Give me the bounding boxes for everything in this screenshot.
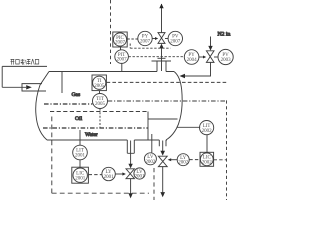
oil bucket level bbox=[148, 118, 178, 120]
transmitter PIT2007 bbox=[115, 50, 129, 64]
signal PIC2007 to PY2007 bbox=[127, 38, 138, 40]
bubble LV2002 bbox=[144, 153, 156, 165]
svg-text:Gas: Gas bbox=[72, 92, 81, 98]
wire LIT to LIC bbox=[79, 160, 81, 167]
svg-text:2002: 2002 bbox=[202, 160, 213, 165]
svg-text:2001: 2001 bbox=[135, 175, 146, 180]
signal PIT2007 to PY2004 bbox=[129, 56, 185, 58]
signal LIC2002 to edge bbox=[214, 159, 227, 161]
wire PIC to PIT bbox=[120, 47, 122, 50]
svg-text:2001: 2001 bbox=[104, 175, 115, 180]
signal TT2005 to right edge bbox=[108, 100, 227, 102]
water drain outlet wire bbox=[130, 179, 132, 194]
signal arrow PY2007 to valve bbox=[152, 38, 155, 40]
signal arrow PY2004 to valve bbox=[199, 56, 203, 58]
inlet leader wire bbox=[1, 66, 3, 87]
weir plate bbox=[147, 112, 149, 141]
svg-text:Oil: Oil bbox=[75, 116, 83, 122]
gas vent arrow up bbox=[159, 4, 163, 9]
water outlet nozzle bbox=[127, 140, 134, 153]
gas riser wire bbox=[161, 4, 163, 71]
wire valve to PV2007 bubble bbox=[165, 38, 168, 40]
signal drop right edge bbox=[226, 100, 228, 200]
positioner PY2004 bbox=[184, 50, 199, 65]
indicator TI2005 bbox=[92, 75, 106, 91]
wire valve to PV2003 bubble bbox=[214, 56, 218, 58]
bubble LV2001 bbox=[134, 168, 145, 179]
svg-text:Water: Water bbox=[85, 132, 98, 138]
inlet nozzle box bbox=[22, 84, 46, 91]
separator vessel shell top bbox=[49, 71, 174, 73]
valve LV2002 bbox=[158, 156, 167, 166]
panel boundary top bbox=[110, 0, 112, 64]
LIT2001 tap wire bbox=[79, 130, 81, 145]
gas outlet nozzle bbox=[152, 61, 172, 72]
bubble PV2007 bbox=[168, 31, 182, 45]
level line oil/water bbox=[43, 127, 148, 129]
level line gas/oil bbox=[44, 103, 92, 105]
transmitter TT2005 bbox=[93, 94, 108, 109]
inlet flow arrow bbox=[26, 85, 32, 89]
vessel right head bbox=[166, 72, 182, 141]
svg-text:2001: 2001 bbox=[75, 176, 86, 181]
arrow into vessel head bbox=[180, 74, 186, 78]
flow arrow down bbox=[128, 164, 132, 169]
transmitter LIT2002 bbox=[200, 121, 214, 135]
signal PIC to gas valve bbox=[130, 47, 170, 49]
label underline bbox=[2, 65, 47, 67]
flow arrow into PV2007 valve bbox=[159, 44, 163, 49]
svg-text:2005: 2005 bbox=[94, 84, 105, 89]
controller LIC2001 bbox=[72, 167, 89, 183]
svg-text:2004: 2004 bbox=[187, 58, 198, 63]
inlet pipe bbox=[2, 86, 26, 88]
signal arrow LY2001 to valve bbox=[115, 173, 123, 175]
oil drain outlet wire bbox=[162, 167, 164, 193]
svg-text:2007: 2007 bbox=[170, 40, 181, 45]
gas nozzle flange tick bbox=[158, 57, 166, 59]
N2 supply wire bbox=[210, 37, 212, 47]
signal LIC2001 to LY2001 bbox=[89, 174, 102, 176]
svg-text:2002: 2002 bbox=[202, 129, 213, 134]
inlet baffle bbox=[61, 72, 63, 94]
panel boundary mid bbox=[153, 168, 155, 200]
oil drain wire bbox=[162, 141, 164, 152]
svg-text:2007: 2007 bbox=[117, 58, 128, 63]
signal TI2005 to right edge bbox=[107, 81, 227, 83]
water drain wire bbox=[130, 141, 132, 165]
valve LV2001 bbox=[126, 169, 134, 179]
wire TI to TT bbox=[99, 91, 101, 94]
svg-text:2002: 2002 bbox=[178, 161, 189, 166]
svg-text:N2 in: N2 in bbox=[218, 32, 231, 38]
transmitter LIT2001 bbox=[73, 145, 88, 160]
svg-text:2007: 2007 bbox=[140, 40, 151, 45]
panel boundary bottom bbox=[52, 192, 149, 194]
tap to LIT2002 bbox=[177, 126, 201, 128]
vessel left head bbox=[36, 72, 49, 141]
svg-text:2005: 2005 bbox=[95, 102, 106, 107]
TT2005 well into liquid bbox=[99, 109, 101, 128]
flow arrow down bbox=[160, 151, 165, 156]
inlet label 井口来液入口 bbox=[10, 59, 38, 65]
relay LY2001 bbox=[102, 167, 115, 180]
relay LY2002 bbox=[177, 154, 189, 166]
valve PV2007 bbox=[158, 33, 165, 44]
controller PIC2007 bbox=[113, 32, 127, 47]
wire PIT to vessel bbox=[121, 63, 123, 71]
signal arrow LY2002 to valve bbox=[171, 159, 178, 161]
LV2002 tap wire bbox=[151, 134, 153, 153]
bubble texts bbox=[75, 35, 231, 182]
bubble PV2003 bbox=[218, 49, 233, 64]
wire LIT2002 to LIC2002 bbox=[206, 135, 208, 153]
panel boundary left bbox=[51, 117, 53, 194]
level line mid dashed bbox=[50, 111, 148, 113]
water outlet arrow bbox=[128, 193, 132, 198]
svg-text:2007: 2007 bbox=[115, 41, 126, 46]
svg-text:2002: 2002 bbox=[145, 160, 156, 165]
oil outlet nozzle bbox=[159, 140, 166, 146]
svg-text:2001: 2001 bbox=[75, 154, 86, 159]
positioner PY2007 bbox=[138, 31, 152, 45]
separator vessel shell bottom bbox=[47, 139, 167, 141]
flow arrow into PV2003 valve bbox=[208, 46, 212, 51]
signal LY2002 to LIC2002 bbox=[189, 159, 200, 161]
oil outlet arrow bbox=[160, 192, 165, 197]
svg-text:2003: 2003 bbox=[221, 58, 232, 63]
N2 wire to vessel bbox=[183, 62, 211, 76]
controller LIC2002 bbox=[200, 152, 214, 166]
valve PV2003 bbox=[206, 51, 214, 63]
